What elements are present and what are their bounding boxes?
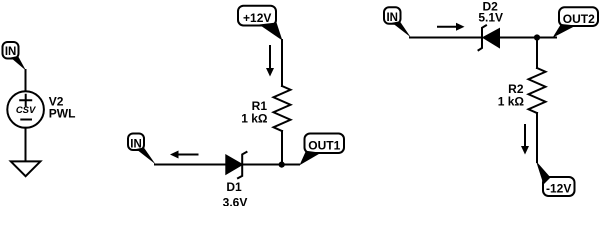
label R2 1 kOhm	[498, 82, 525, 108]
node -12V flag	[536, 161, 575, 196]
svg-text:1 kΩ: 1 kΩ	[241, 112, 268, 126]
label V2 PWL	[49, 95, 76, 121]
current arrow (right)	[438, 23, 465, 31]
wire from V2 - terminal to ground	[25, 128, 27, 162]
wire +12V to R1	[281, 40, 283, 86]
svg-text:IN: IN	[386, 12, 398, 24]
junction node	[279, 162, 285, 168]
label D1 3.6V	[223, 180, 248, 210]
svg-text:OUT1: OUT1	[308, 138, 340, 152]
node +12V flag	[238, 6, 282, 41]
current arrow (down)	[266, 46, 274, 77]
wire IN to D1 anode	[155, 164, 226, 166]
svg-text:PWL: PWL	[49, 107, 76, 121]
current arrow (down)	[521, 125, 529, 155]
node IN flag (middle)	[128, 134, 156, 165]
node IN flag (right)	[384, 7, 411, 37]
wire IN to D2 cathode	[410, 37, 482, 39]
resistor R1	[274, 86, 291, 131]
wire R1 to node	[281, 131, 283, 165]
junction node	[534, 34, 540, 40]
current arrow (left)	[170, 151, 198, 159]
ground	[11, 161, 41, 176]
node IN (left, flag for V2)	[3, 42, 26, 71]
svg-text:CSV: CSV	[16, 105, 36, 116]
wire node to R2	[536, 38, 538, 69]
node OUT1 flag	[300, 134, 345, 166]
svg-text:OUT2: OUT2	[563, 12, 595, 26]
svg-text:1 kΩ: 1 kΩ	[498, 94, 525, 108]
node OUT2 flag	[553, 7, 599, 38]
wire D2 anode to node	[499, 37, 556, 39]
resistor R2	[529, 68, 546, 113]
diode D2 (zener)	[479, 25, 500, 50]
svg-text:D1: D1	[226, 180, 242, 194]
diode D1 (zener)	[226, 152, 246, 178]
wire R2 to -12V	[536, 113, 538, 162]
svg-text:+12V: +12V	[243, 11, 271, 25]
svg-text:IN: IN	[5, 46, 17, 58]
wire from IN flag to V2 + terminal	[25, 70, 27, 91]
svg-text:3.6V: 3.6V	[223, 196, 248, 206]
label R1 1 kOhm	[241, 99, 268, 126]
label D2 5.1V	[478, 0, 503, 25]
svg-text:5.1V: 5.1V	[478, 11, 503, 25]
wire node to OUT1	[282, 164, 299, 166]
voltage source V2	[7, 91, 44, 128]
svg-text:IN: IN	[130, 138, 142, 150]
svg-text:-12V: -12V	[546, 181, 571, 195]
wire D1 cathode to node	[242, 164, 282, 166]
